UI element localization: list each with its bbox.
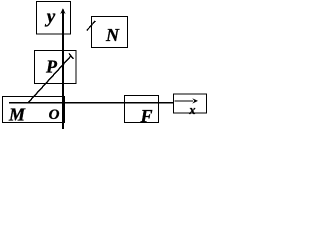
svg-text:O: O	[49, 107, 60, 123]
label box F	[125, 96, 159, 123]
label box P	[35, 51, 77, 84]
y-axis arrowhead	[60, 8, 65, 14]
diagonal arrowhead	[69, 53, 74, 59]
diagonal arrow P	[28, 56, 71, 103]
svg-text:M: M	[8, 105, 26, 125]
label box M O	[3, 97, 65, 123]
label box N	[92, 17, 128, 48]
x-axis / ground line	[9, 102, 174, 104]
x-axis arrowhead	[192, 98, 198, 103]
x arrow segment	[175, 100, 194, 101]
y-axis line	[62, 10, 64, 130]
label box x	[174, 94, 207, 113]
tick near N	[87, 21, 96, 31]
svg-text:F: F	[140, 106, 153, 126]
svg-text:N: N	[105, 25, 120, 45]
svg-text:y: y	[45, 7, 56, 28]
svg-text:x: x	[188, 103, 195, 117]
svg-text:P: P	[45, 57, 58, 77]
label box y	[37, 2, 71, 35]
